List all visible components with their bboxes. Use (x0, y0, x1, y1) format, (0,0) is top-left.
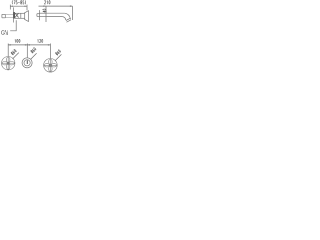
dimension line 210 (39, 6, 73, 20)
dimension arrows 210 (43, 6, 72, 7)
spout inlet nipple (37, 14, 40, 17)
valve bonnet cross (15, 13, 19, 17)
right cross handle (44, 59, 58, 73)
vertical dim 40 (45, 6, 47, 22)
dimension line (75-85) (10, 5, 27, 11)
label right Ø60 (55, 49, 61, 55)
leader right Ø60 (55, 54, 61, 60)
label left Ø60 (11, 49, 17, 55)
spout wall line (39, 10, 41, 20)
spout elbow (63, 13, 71, 20)
extension line middle knob (26, 44, 28, 58)
dimension label 210 (44, 1, 50, 5)
valve escutcheon dark (13, 12, 15, 18)
spout tip mouth (66, 18, 71, 22)
wall line valve (13, 7, 15, 22)
G1/2 inlet nipple (2, 14, 14, 17)
dimension arrows left drawing (10, 6, 27, 7)
leader G1/2 (10, 20, 16, 31)
leader middle Ø45 (31, 53, 37, 59)
leader left Ø60 (13, 53, 19, 59)
middle knob outlet (22, 58, 32, 68)
dimension label (75-85) (12, 0, 25, 4)
extension line left handle (7, 44, 9, 57)
dimension line 100/120 (8, 44, 50, 46)
dimension arrows bottom (8, 44, 50, 45)
dimension label 100 (15, 39, 20, 42)
label 40 rotated (43, 9, 46, 12)
handle bell side view (25, 11, 29, 22)
extension line right handle (49, 44, 51, 59)
dimension label 120 (38, 39, 43, 42)
valve body (15, 13, 25, 18)
spout tube (46, 13, 65, 16)
knob slot (26, 60, 28, 64)
label G1/2 (1, 30, 7, 34)
label middle Ø45 (30, 47, 36, 53)
left cross handle (2, 57, 15, 70)
spout flange horizontals (40, 13, 46, 16)
